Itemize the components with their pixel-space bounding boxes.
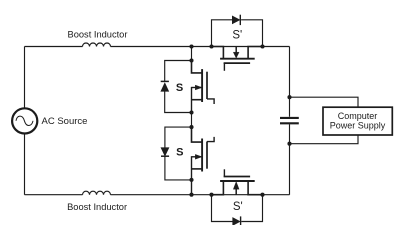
transistor S lower: body arrow lead [192,156,202,158]
transistor S upper: channel bar [201,69,203,102]
capacitor C1 [280,117,299,119]
transistor S' top: gate bar [224,62,251,64]
transistor S' top: body arrow [235,47,237,53]
transistor S upper: source lead [192,99,203,101]
diode D4 (bottom S' loop) [233,218,240,226]
boost inductor L1 (top) [83,43,111,47]
svg-text:AC Source: AC Source [42,116,88,127]
junction dots [189,44,291,196]
node top rail / bridge leg [189,44,193,48]
wire to power supply (bottom) [290,135,359,144]
node top S' left [209,44,213,48]
transistor S' bottom: body arrow [235,189,237,195]
diode D2 (lower S body diode, pointing down) [161,148,169,156]
transistor S' top: channel bar [220,58,255,60]
node lower S top [189,125,193,129]
node lower S diode return [189,178,193,182]
transistor S' bottom: gate bar [224,176,251,178]
lower S cell: wire frame [165,127,192,180]
diode D3 (top S' loop) [232,16,240,24]
transistor S upper: body arrow lead [192,87,202,89]
transistor S' top: left lead [212,47,224,59]
transistor S upper: gate bar [206,72,208,99]
transistor S upper: source rail [191,87,193,113]
wire top main [25,46,290,48]
node bottom rail / bridge leg [189,193,193,197]
svg-text:Power Supply: Power Supply [330,120,386,130]
svg-text:S: S [176,82,183,94]
sine symbol inside AC source [16,116,33,125]
transistor S lower: source rail [191,156,193,195]
top S' diode loop wires [212,20,263,47]
node top S' right [260,44,264,48]
transistor S upper: gate lead [207,99,214,104]
transistor S' top: gate lead [223,63,225,71]
transistor S lower: source lead [192,168,203,170]
wire middle rail (node between switches) [191,47,193,128]
transistor S lower: drain lead [192,127,203,142]
svg-text:Boost Inductor: Boost Inductor [67,202,127,212]
svg-text:S': S' [232,29,242,41]
transistor S lower: gate bar [206,142,208,169]
transistor S lower: channel bar [201,139,203,172]
transistor S' bottom: channel bar [220,180,255,182]
node bottom S' left [209,193,213,197]
svg-text:Boost Inductor: Boost Inductor [68,30,128,40]
node bottom S' right [260,193,264,197]
node upper S top [189,58,193,62]
transistor S' bottom: left lead [212,181,224,195]
transistor S upper: drain lead [192,61,203,73]
box Computer Power Supply [323,107,392,135]
AC source V1 [12,108,37,133]
transistor S' top: right lead [248,47,262,59]
boost inductor L2 (bottom) [83,191,111,194]
wire bottom main [25,194,290,196]
upper S cell: wire frame [165,61,192,113]
transistor S' bottom: gate lead [223,169,225,176]
node cap bottom [287,142,291,146]
node upper S bottom [189,110,193,114]
wire to power supply (top) [290,97,359,107]
transistor S lower: gate lead [207,137,214,142]
bottom S' diode loop wires [212,195,263,222]
svg-text:S: S [176,147,183,159]
diode D1 (upper S body diode, pointing up) [161,80,169,82]
transistor S' bottom: right lead [248,181,262,195]
svg-text:S': S' [233,201,243,213]
wire right rail [289,47,291,195]
wire left rail [24,47,26,195]
node cap top [287,95,291,99]
